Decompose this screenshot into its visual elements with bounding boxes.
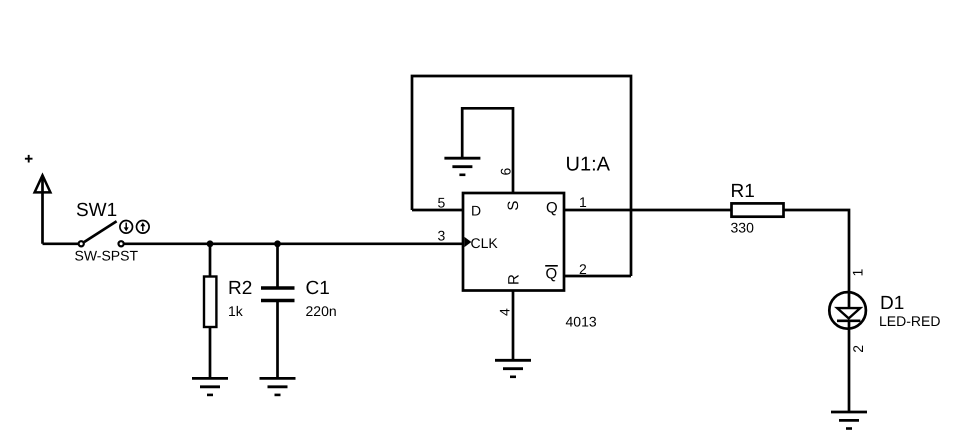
resistor R2 — [204, 277, 216, 328]
node junction dot 1 — [207, 240, 214, 247]
svg-text:Q: Q — [546, 266, 558, 283]
power arrow symbol — [35, 175, 51, 192]
node junction dot 2 — [274, 240, 281, 247]
wire LED to ground — [848, 321, 851, 413]
svg-text:SW1: SW1 — [76, 200, 117, 221]
switch SW1 left terminal — [79, 241, 84, 246]
switch actuate down icon — [120, 221, 133, 234]
wire power stem vertical — [41, 176, 44, 244]
wire outer feedback loop: left vertical, top, right vertical — [412, 76, 631, 276]
wire R2 top stem — [209, 244, 212, 278]
op-amp U1:A flip-flop body — [463, 193, 564, 291]
svg-text:S: S — [505, 201, 522, 211]
wire C1 top stem — [276, 244, 279, 288]
switch SW1 right terminal — [119, 241, 124, 246]
svg-text:U1:A: U1:A — [566, 154, 611, 176]
wire C1 bottom stem — [276, 301, 279, 379]
wire power to switch — [43, 242, 82, 245]
svg-text:D1: D1 — [880, 293, 904, 314]
ground LED — [831, 412, 867, 429]
ground feedback (S pin) — [444, 158, 480, 175]
wire Qbar pin (2) — [564, 275, 631, 278]
LED D1 diode triangle — [837, 308, 860, 318]
svg-text:330: 330 — [731, 220, 755, 236]
switch SW1 blade — [84, 221, 116, 242]
wire R2 bottom stem — [209, 327, 212, 379]
svg-text:Q: Q — [546, 200, 558, 217]
svg-text:220n: 220n — [306, 303, 337, 319]
svg-text:4: 4 — [497, 308, 513, 316]
wire Q output to R1 — [564, 209, 732, 212]
svg-text:LED-RED: LED-RED — [879, 313, 940, 329]
svg-text:5: 5 — [438, 195, 446, 211]
svg-text:3: 3 — [438, 227, 446, 243]
svg-text:SW-SPST: SW-SPST — [75, 248, 139, 264]
clock input triangle — [464, 237, 471, 247]
svg-text:2: 2 — [850, 345, 866, 353]
wire R pin (4) down to ground — [512, 291, 515, 362]
capacitor C1 — [261, 288, 295, 301]
svg-text:CLK: CLK — [471, 235, 499, 251]
wire switch to CLK — [124, 242, 463, 245]
LED D1 cathode bar — [837, 319, 860, 322]
svg-text:R: R — [505, 274, 522, 285]
svg-text:R2: R2 — [228, 278, 252, 299]
svg-text:4013: 4013 — [566, 314, 597, 330]
svg-text:C1: C1 — [306, 278, 330, 299]
svg-text:R1: R1 — [731, 181, 755, 202]
resistor R1 — [732, 203, 784, 216]
svg-text:D: D — [471, 202, 481, 218]
ground U1 R pin — [495, 360, 531, 377]
wire R1 to LED corner — [784, 210, 850, 308]
LED D1 circle — [829, 292, 866, 329]
svg-text:2: 2 — [579, 261, 587, 277]
wire D pin (5) — [412, 209, 463, 212]
switch actuate up icon — [137, 221, 150, 234]
wire S feedback: S pin up, across, down to ground — [462, 108, 513, 193]
svg-text:1: 1 — [579, 194, 587, 210]
ground R2 — [192, 378, 228, 395]
svg-text:1k: 1k — [228, 303, 244, 319]
svg-text:6: 6 — [498, 168, 514, 176]
power +V label (plus sign) — [25, 155, 33, 163]
ground C1 — [260, 378, 296, 395]
svg-text:1: 1 — [850, 269, 866, 277]
